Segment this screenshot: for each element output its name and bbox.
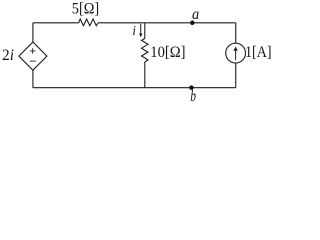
current source arrow up bbox=[235, 50, 237, 60]
svg-text:10[Ω]: 10[Ω] bbox=[150, 44, 185, 61]
dependent source diamond 2i bbox=[19, 42, 47, 70]
wire middle branch upper bbox=[144, 23, 146, 39]
svg-text:a: a bbox=[192, 6, 199, 23]
svg-text:5[Ω]: 5[Ω] bbox=[72, 1, 99, 18]
resistor R 5[Ω] zigzag bbox=[79, 19, 98, 26]
current arrow down bbox=[140, 24, 142, 34]
wire middle branch lower bbox=[144, 62, 146, 88]
node b dot bbox=[189, 85, 194, 90]
plus sign inside diamond bbox=[30, 48, 36, 54]
minus sign inside diamond bbox=[30, 60, 36, 62]
wire top-left segment bbox=[33, 22, 79, 24]
wire top-right segment bbox=[98, 22, 236, 24]
wire left branch lower bbox=[32, 70, 34, 88]
wire right branch upper bbox=[235, 23, 237, 43]
wire bottom bbox=[33, 87, 236, 89]
svg-text:2i: 2i bbox=[2, 47, 14, 64]
node a dot bbox=[190, 21, 195, 26]
resistor 10[Ω] vertical zigzag bbox=[142, 38, 149, 62]
svg-text:i: i bbox=[132, 23, 136, 38]
current source I1 circle bbox=[226, 43, 246, 63]
svg-text:1[A]: 1[A] bbox=[245, 44, 272, 61]
svg-text:b: b bbox=[190, 88, 196, 105]
wire right branch lower bbox=[235, 63, 237, 88]
wire left branch upper bbox=[32, 23, 34, 42]
